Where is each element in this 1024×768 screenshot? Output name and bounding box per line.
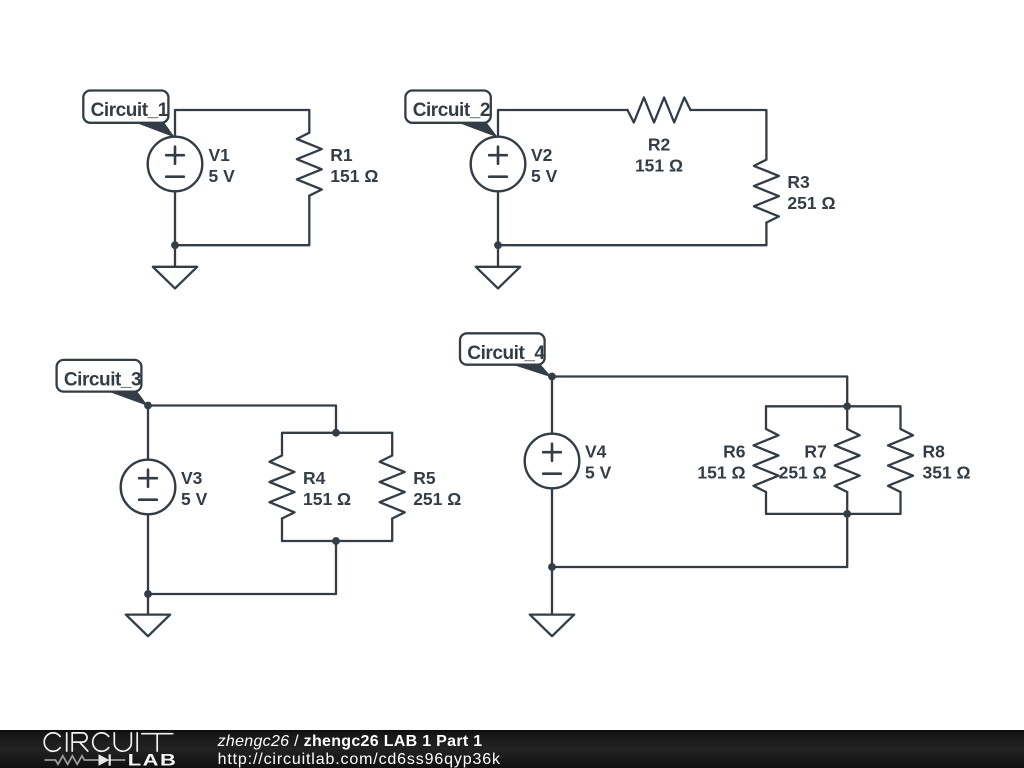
svg-text:Circuit_4: Circuit_4 <box>467 343 545 364</box>
node C4 rail top <box>843 402 851 410</box>
svg-text:251 Ω: 251 Ω <box>413 489 461 509</box>
ground C4 <box>530 615 574 637</box>
svg-text:5 V: 5 V <box>585 462 612 482</box>
logo letter I2 <box>136 733 138 751</box>
logo letter T <box>142 734 173 751</box>
svg-text:R6: R6 <box>723 442 746 462</box>
footer bar <box>0 730 1024 768</box>
node C4 rail bottom <box>843 510 851 518</box>
wire top C2 <box>498 110 628 137</box>
labels text <box>181 135 971 509</box>
node C4 top <box>548 373 556 381</box>
logo letter C2 <box>93 733 109 751</box>
voltage source V1 <box>148 137 203 192</box>
wire top C1 <box>175 110 309 137</box>
node C2 gnd junction <box>494 241 502 249</box>
parallel rail top C4 <box>766 406 901 429</box>
svg-text:5 V: 5 V <box>209 166 236 186</box>
logo letter R <box>72 733 88 751</box>
svg-text:151 Ω: 151 Ω <box>303 489 351 509</box>
wire R7 top stub <box>846 406 848 429</box>
node C1 gnd junction <box>171 241 179 249</box>
resistor R7 <box>835 429 860 492</box>
wire bottom C2 <box>498 223 766 246</box>
node C4 gnd junction <box>548 563 556 571</box>
svg-text:Circuit_3: Circuit_3 <box>64 370 141 391</box>
wire top C2 right segment <box>691 110 767 160</box>
wire source-to-ground C3 <box>147 514 149 615</box>
node C3 top <box>144 402 152 410</box>
logo resistor-diode line <box>45 756 126 764</box>
svg-text:http://circuitlab.com/cd6ss96q: http://circuitlab.com/cd6ss96qyp36k <box>218 751 501 768</box>
resistor R5 <box>380 456 405 519</box>
svg-text:151 Ω: 151 Ω <box>697 462 745 482</box>
resistor R2 <box>628 98 691 123</box>
voltage source V4 <box>525 434 580 489</box>
wire source-to-ground C2 <box>497 191 499 267</box>
svg-text:151 Ω: 151 Ω <box>635 155 683 175</box>
svg-text:5 V: 5 V <box>181 489 208 509</box>
callout Circuit_2 <box>455 122 498 138</box>
svg-text:351 Ω: 351 Ω <box>923 462 971 482</box>
svg-text:V4: V4 <box>585 442 607 462</box>
wire R7 bottom stub <box>846 492 848 514</box>
callout Circuit_1 <box>133 122 176 138</box>
svg-text:V2: V2 <box>531 145 553 165</box>
wire source-to-ground C1 <box>174 191 176 267</box>
resistor R3 <box>754 160 779 223</box>
svg-text:zhengc26 / zhengc26 LAB 1 Part: zhengc26 / zhengc26 LAB 1 Part 1 <box>217 733 483 750</box>
svg-text:V3: V3 <box>181 468 203 488</box>
resistor R4 <box>270 456 295 519</box>
logo letter C <box>44 733 60 751</box>
logo diode <box>99 754 110 765</box>
wire source-to-ground C4 <box>551 488 553 615</box>
svg-text:R2: R2 <box>648 135 671 155</box>
node C3 gnd junction <box>144 590 152 598</box>
svg-text:V1: V1 <box>209 145 231 165</box>
wire mid-to-bottom C4 <box>552 514 847 567</box>
wire mid-to-bottom C3 <box>148 541 336 594</box>
node C3 rail top <box>332 429 340 437</box>
svg-text:R8: R8 <box>923 442 946 462</box>
voltage source V3 <box>121 460 176 515</box>
callout Circuit_3 <box>106 391 149 407</box>
callout labels <box>57 91 552 407</box>
wire bottom C1 <box>175 196 309 246</box>
svg-text:Circuit_2: Circuit_2 <box>413 100 490 121</box>
logo CIRCUIT text (thin strokes) <box>44 733 173 751</box>
svg-text:251 Ω: 251 Ω <box>779 462 827 482</box>
ground C2 <box>476 267 520 289</box>
wire top C3 <box>148 406 336 461</box>
svg-text:R4: R4 <box>303 468 326 488</box>
svg-text:151 Ω: 151 Ω <box>330 166 378 186</box>
svg-text:Circuit_1: Circuit_1 <box>91 100 169 121</box>
callout Circuit_4 <box>509 364 552 378</box>
node dots <box>144 241 851 598</box>
parallel rail top C3 <box>282 433 392 456</box>
voltage source V2 <box>471 137 526 192</box>
svg-text:R7: R7 <box>804 442 826 462</box>
ground C1 <box>153 267 197 289</box>
resistor R1 <box>297 133 322 196</box>
svg-text:5 V: 5 V <box>531 166 558 186</box>
node C3 rail bottom <box>332 537 340 545</box>
resistor R8 <box>888 429 913 492</box>
wire top C4 <box>552 377 847 435</box>
logo letter U <box>114 733 131 751</box>
logo letter I <box>66 733 68 751</box>
ground C3 <box>126 615 170 637</box>
svg-text:LAB: LAB <box>128 751 177 768</box>
svg-text:R1: R1 <box>330 145 353 165</box>
svg-text:R5: R5 <box>413 468 436 488</box>
svg-text:R3: R3 <box>787 172 810 192</box>
parallel rail bottom C4 <box>766 492 901 514</box>
resistor R6 <box>754 429 779 492</box>
svg-text:251 Ω: 251 Ω <box>787 193 835 213</box>
parallel rail bottom C3 <box>282 519 392 542</box>
